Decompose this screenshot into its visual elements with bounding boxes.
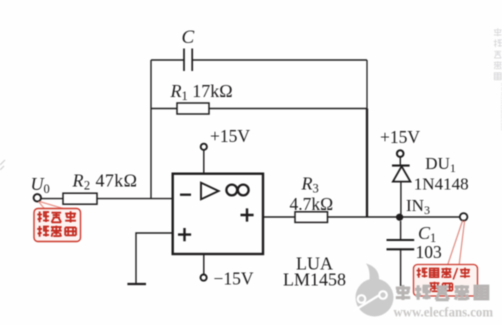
red text line1 jie-guang-dian: [37, 211, 76, 222]
svg-text:R1 17kΩ: R1 17kΩ: [170, 81, 233, 103]
watermark text dian-zi-fa-shao-you: [396, 285, 488, 300]
resistor R1 body: [177, 103, 209, 114]
ground: [127, 283, 146, 285]
watermark right edge vertical: [494, 28, 502, 79]
op-amp output plus: [241, 208, 254, 221]
wire: R1 row y=108.5: [151, 108, 367, 110]
wire: +15V to diode: [399, 157, 401, 166]
svg-text:DU1: DU1: [425, 154, 456, 175]
wire: IN3 to C1: [400, 221, 402, 239]
wire: C1 down: [400, 249, 402, 286]
svg-text:1N4148: 1N4148: [414, 174, 469, 193]
red label box 2: [414, 265, 478, 297]
svg-text:C: C: [182, 27, 195, 48]
svg-text:+15V: +15V: [210, 126, 250, 146]
op-amp non-inverting plus: [178, 228, 191, 241]
svg-text:103: 103: [416, 242, 443, 262]
svg-text:R2 47kΩ: R2 47kΩ: [72, 171, 138, 193]
svg-text:www.elecfans.com: www.elecfans.com: [394, 305, 494, 320]
wire: top feedback (capacitor C branch), y=60: [151, 59, 367, 61]
resistor R2 body: [63, 193, 97, 204]
faint left-edge mark: [0, 160, 5, 170]
wire: diode to IN3 node: [400, 182, 402, 214]
red label box 1: [34, 209, 81, 242]
leader lines label 1: [39, 202, 63, 209]
terminal +15V circle (op-amp): [201, 144, 207, 150]
svg-text:U0: U0: [31, 174, 50, 196]
wire: right feedback vertical lower (thick): [366, 109, 368, 218]
wire: non-inverting input to ground: [136, 233, 173, 284]
wire: right feedback vertical upper (thin): [366, 60, 368, 109]
op-amp inverting input minus: [180, 194, 191, 196]
leader lines label 2: [448, 221, 465, 265]
svg-text:+15V: +15V: [380, 127, 420, 147]
wire: op-amp -15V pin: [203, 254, 205, 274]
wire: input row y=198.6: [41, 198, 173, 200]
svg-text:4.7kΩ: 4.7kΩ: [290, 194, 334, 214]
red text line1 jie-mo-shu-/-zhuan: [417, 268, 470, 280]
red text line2 huan-qi (partially hidden): [430, 282, 453, 292]
terminal U0 circle: [34, 194, 41, 201]
wire: output row y=217: [263, 216, 460, 218]
svg-text:−15V: −15V: [214, 269, 254, 289]
svg-text:R3: R3: [301, 174, 319, 196]
watermark logo disc: [353, 264, 394, 317]
svg-text:LM1458: LM1458: [283, 270, 346, 290]
wire: op-amp +15V pin: [203, 150, 205, 174]
terminal +15V circle (diode branch): [397, 150, 404, 157]
resistor R3 body: [295, 212, 328, 223]
diode DU1 triangle: [393, 166, 411, 181]
capacitor C1 plates: [387, 240, 415, 249]
capacitor C plates: [184, 49, 192, 72]
diode DU1 cathode bar: [392, 165, 410, 167]
terminal OUT circle: [460, 213, 468, 221]
svg-text:IN3: IN3: [406, 196, 430, 217]
terminal -15V circle: [201, 275, 207, 281]
op-amp infinity gain symbol: [226, 185, 237, 196]
wire: left feedback vertical x=151: [150, 60, 152, 199]
op-amp U1 box: [173, 174, 263, 254]
red text line2 ou-he-qi: [37, 226, 76, 237]
node IN3 junction dot: [396, 214, 403, 221]
op-amp triangle symbol: [201, 183, 219, 200]
